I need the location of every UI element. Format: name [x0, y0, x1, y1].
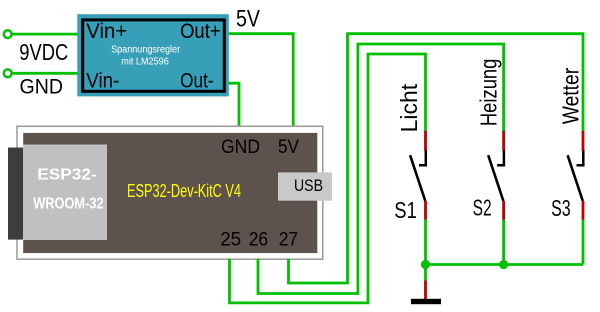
svg-text:Spannungsregler: Spannungsregler	[111, 44, 180, 56]
svg-text:26: 26	[249, 230, 269, 251]
svg-text:Vin+: Vin+	[86, 20, 127, 43]
svg-text:Vin-: Vin-	[86, 70, 119, 93]
svg-text:Heizung: Heizung	[476, 59, 502, 127]
svg-text:GND: GND	[221, 137, 260, 158]
svg-text:Out-: Out-	[180, 70, 214, 93]
wire pin27 to switch S3	[289, 34, 584, 283]
wire pin26 to switch S2	[258, 44, 504, 294]
wire GND terminal to Vin-	[12, 72, 79, 75]
svg-text:USB: USB	[294, 177, 323, 195]
svg-text:Licht: Licht	[396, 83, 422, 132]
svg-text:WROOM-32: WROOM-32	[33, 195, 104, 212]
wire 9VDC terminal to Vin+	[12, 33, 79, 36]
svg-text:Wetter: Wetter	[558, 68, 584, 125]
value label Spannungsregler mit LM2596	[111, 44, 180, 68]
svg-text:25: 25	[220, 230, 241, 251]
wire S2 to bottom bus	[502, 220, 505, 265]
junction at S2	[499, 260, 508, 269]
switch S2	[488, 131, 504, 220]
wire S1 to bottom bus	[424, 220, 427, 265]
terminal 9VDC	[4, 30, 12, 38]
svg-text:ESP32-: ESP32-	[37, 166, 96, 183]
svg-text:GND: GND	[20, 76, 64, 99]
terminal GND input	[4, 69, 12, 77]
svg-text:S2: S2	[473, 194, 492, 220]
svg-text:mit LM2596: mit LM2596	[121, 56, 169, 68]
svg-text:Out+: Out+	[180, 20, 221, 43]
svg-text:5V: 5V	[236, 6, 260, 33]
USB connector	[278, 172, 332, 200]
module label ESP32-WROOM-32	[33, 166, 104, 212]
switch S3	[568, 131, 584, 220]
svg-text:S3: S3	[551, 195, 571, 221]
wire Out+ to ESP32 5V pin	[229, 34, 293, 128]
wire S3 to bottom bus	[582, 220, 585, 265]
svg-text:5V: 5V	[278, 137, 299, 158]
switch S1	[410, 131, 426, 220]
svg-text:9VDC: 9VDC	[19, 39, 68, 65]
wire pin25 to switch S1	[230, 54, 426, 303]
wire bottom bus	[426, 263, 584, 266]
ESP32 dev board U2	[8, 126, 323, 259]
svg-text:ESP32-Dev-KitC V4: ESP32-Dev-KitC V4	[127, 181, 241, 201]
svg-text:27: 27	[279, 230, 299, 251]
ground	[411, 265, 441, 305]
junction at S1	[421, 260, 430, 269]
svg-text:S1: S1	[394, 197, 417, 223]
wire Out- to ESP32 GND pin	[229, 83, 239, 127]
voltage regulator U1 LM2596 module	[77, 14, 229, 96]
